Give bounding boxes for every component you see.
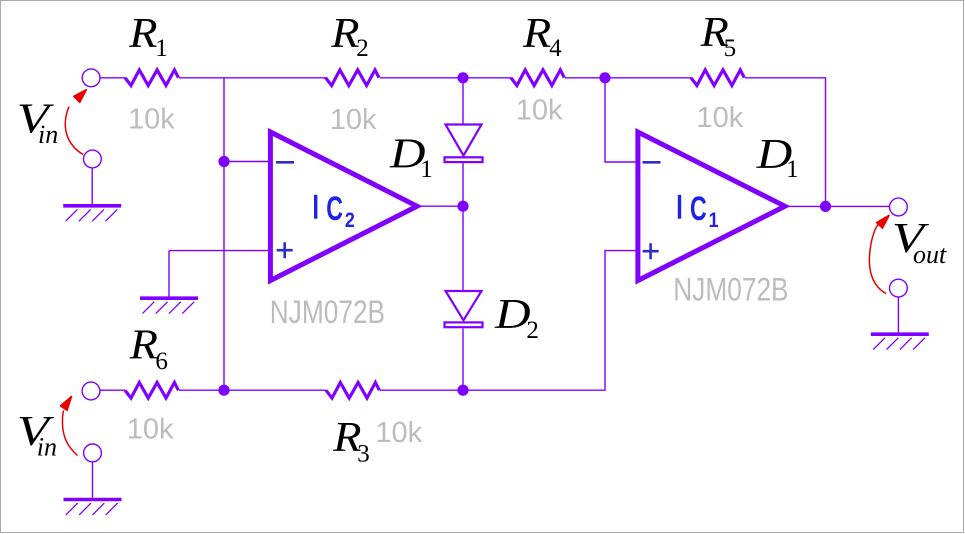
wire Vout ground stem [897, 297, 899, 332]
wire left vertical bus x=224 [223, 78, 225, 390]
wire top-left input to R1 [100, 77, 125, 79]
resistor R2 [326, 70, 379, 86]
svg-text:10k: 10k [330, 104, 377, 136]
terminal Vin top minus [84, 150, 102, 168]
svg-text:5: 5 [724, 35, 737, 62]
arrow Vin bottom [61, 397, 78, 456]
label R3 [332, 414, 370, 468]
svg-text:R: R [330, 10, 359, 57]
wire node A to D1 anode [462, 78, 464, 125]
terminal Vin top plus [82, 69, 100, 87]
IC1 plus pin mark [643, 243, 659, 259]
wire IC2 output to node B [417, 205, 463, 207]
ground G1 top Vin [63, 206, 121, 221]
svg-text:R: R [128, 10, 157, 57]
IC2 plus pin mark [277, 242, 293, 258]
resistor R1 [125, 70, 178, 86]
svg-text:1: 1 [155, 35, 168, 62]
label Vin bottom [17, 409, 57, 462]
wire Vin top ground stem [91, 168, 93, 204]
terminal Vin bottom plus [82, 382, 100, 400]
svg-text:in: in [37, 433, 57, 462]
label R2 [330, 10, 369, 62]
op-amp U2 IC1 triangle [638, 132, 785, 281]
svg-text:10k: 10k [128, 104, 175, 136]
resistor R6 [125, 383, 178, 399]
op-amp U1 IC2 triangle [270, 132, 417, 281]
svg-text:10k: 10k [375, 417, 422, 449]
wire Vin bottom ground stem [92, 462, 94, 498]
wire D1 cathode to D2 anode [462, 163, 464, 291]
svg-text:C: C [690, 190, 707, 229]
junction IC2 inverting tap [218, 156, 229, 167]
svg-text:10k: 10k [516, 95, 563, 127]
label R1 [128, 10, 168, 62]
wire IC2 inverting input [224, 161, 270, 163]
label R4 [522, 10, 562, 62]
svg-text:C: C [326, 190, 343, 229]
svg-text:1: 1 [786, 156, 799, 183]
svg-text:R: R [522, 10, 551, 57]
svg-text:4: 4 [549, 35, 562, 62]
label Vout [892, 216, 947, 269]
ground G2 IC2 plus [140, 298, 198, 313]
label R6 [129, 322, 168, 375]
wire IC1 output to Vout [785, 205, 890, 207]
resistor R4 [511, 70, 564, 86]
ground G3 bottom Vin [64, 500, 122, 515]
IC1 minus pin mark [643, 161, 661, 164]
wire R4 to R5 [565, 77, 691, 79]
arrow Vin top [65, 90, 86, 155]
terminal Vout plus [890, 198, 908, 216]
diode D2 [445, 291, 483, 327]
svg-text:R: R [129, 322, 158, 369]
junction node A (R1/R2-D1) [457, 72, 468, 83]
label Vin top [17, 96, 58, 149]
svg-text:6: 6 [155, 348, 168, 375]
svg-text:D: D [494, 290, 531, 337]
wire IC2 non-inverting input [169, 251, 270, 299]
arrow Vout [869, 216, 889, 294]
terminal Vin bottom minus [84, 444, 102, 462]
wire node D to IC1 inverting input [605, 78, 638, 162]
label D1 [389, 130, 433, 183]
wire bottom input to R6 [100, 389, 125, 391]
IC2 minus pin mark [276, 161, 294, 164]
wire R5 to output corner [745, 78, 826, 207]
label IC1 [678, 190, 719, 233]
svg-text:NJM072B: NJM072B [673, 272, 788, 308]
label D2 [494, 290, 539, 344]
wire node C to IC1 non-inverting input [463, 251, 638, 391]
junction node B (IC2 out/D1/D2) [457, 201, 468, 212]
svg-text:10k: 10k [697, 102, 744, 134]
svg-text:2: 2 [345, 209, 355, 233]
svg-text:NJM072B: NJM072B [270, 295, 385, 331]
label R5 [700, 9, 737, 62]
svg-text:out: out [913, 240, 947, 269]
wire R2 to node A [380, 77, 511, 79]
junction bottom bus tap [218, 385, 229, 396]
junction node C (R3/D2/IC1+) [457, 385, 468, 396]
wire R6 to R3 [179, 389, 326, 391]
ground G4 Vout [871, 334, 929, 349]
label D1 at IC1 [756, 130, 799, 183]
resistor R5 [691, 70, 744, 86]
label IC2 [314, 190, 355, 233]
svg-text:1: 1 [709, 209, 719, 233]
wire R3 to node C [380, 389, 463, 391]
svg-text:3: 3 [357, 441, 370, 468]
svg-text:2: 2 [356, 35, 369, 62]
svg-text:1: 1 [420, 156, 433, 183]
resistor R3 [326, 383, 379, 399]
wire R1 to R2 [179, 77, 326, 79]
junction node D (R4/R5-IC1 inv) [599, 72, 610, 83]
terminal Vout minus [890, 279, 908, 297]
svg-text:2: 2 [526, 317, 539, 344]
svg-text:10k: 10k [127, 414, 174, 446]
diode D1 [445, 125, 483, 163]
junction output node [820, 201, 831, 212]
svg-text:in: in [38, 120, 58, 149]
wire D2 cathode to bottom rail [462, 329, 464, 391]
